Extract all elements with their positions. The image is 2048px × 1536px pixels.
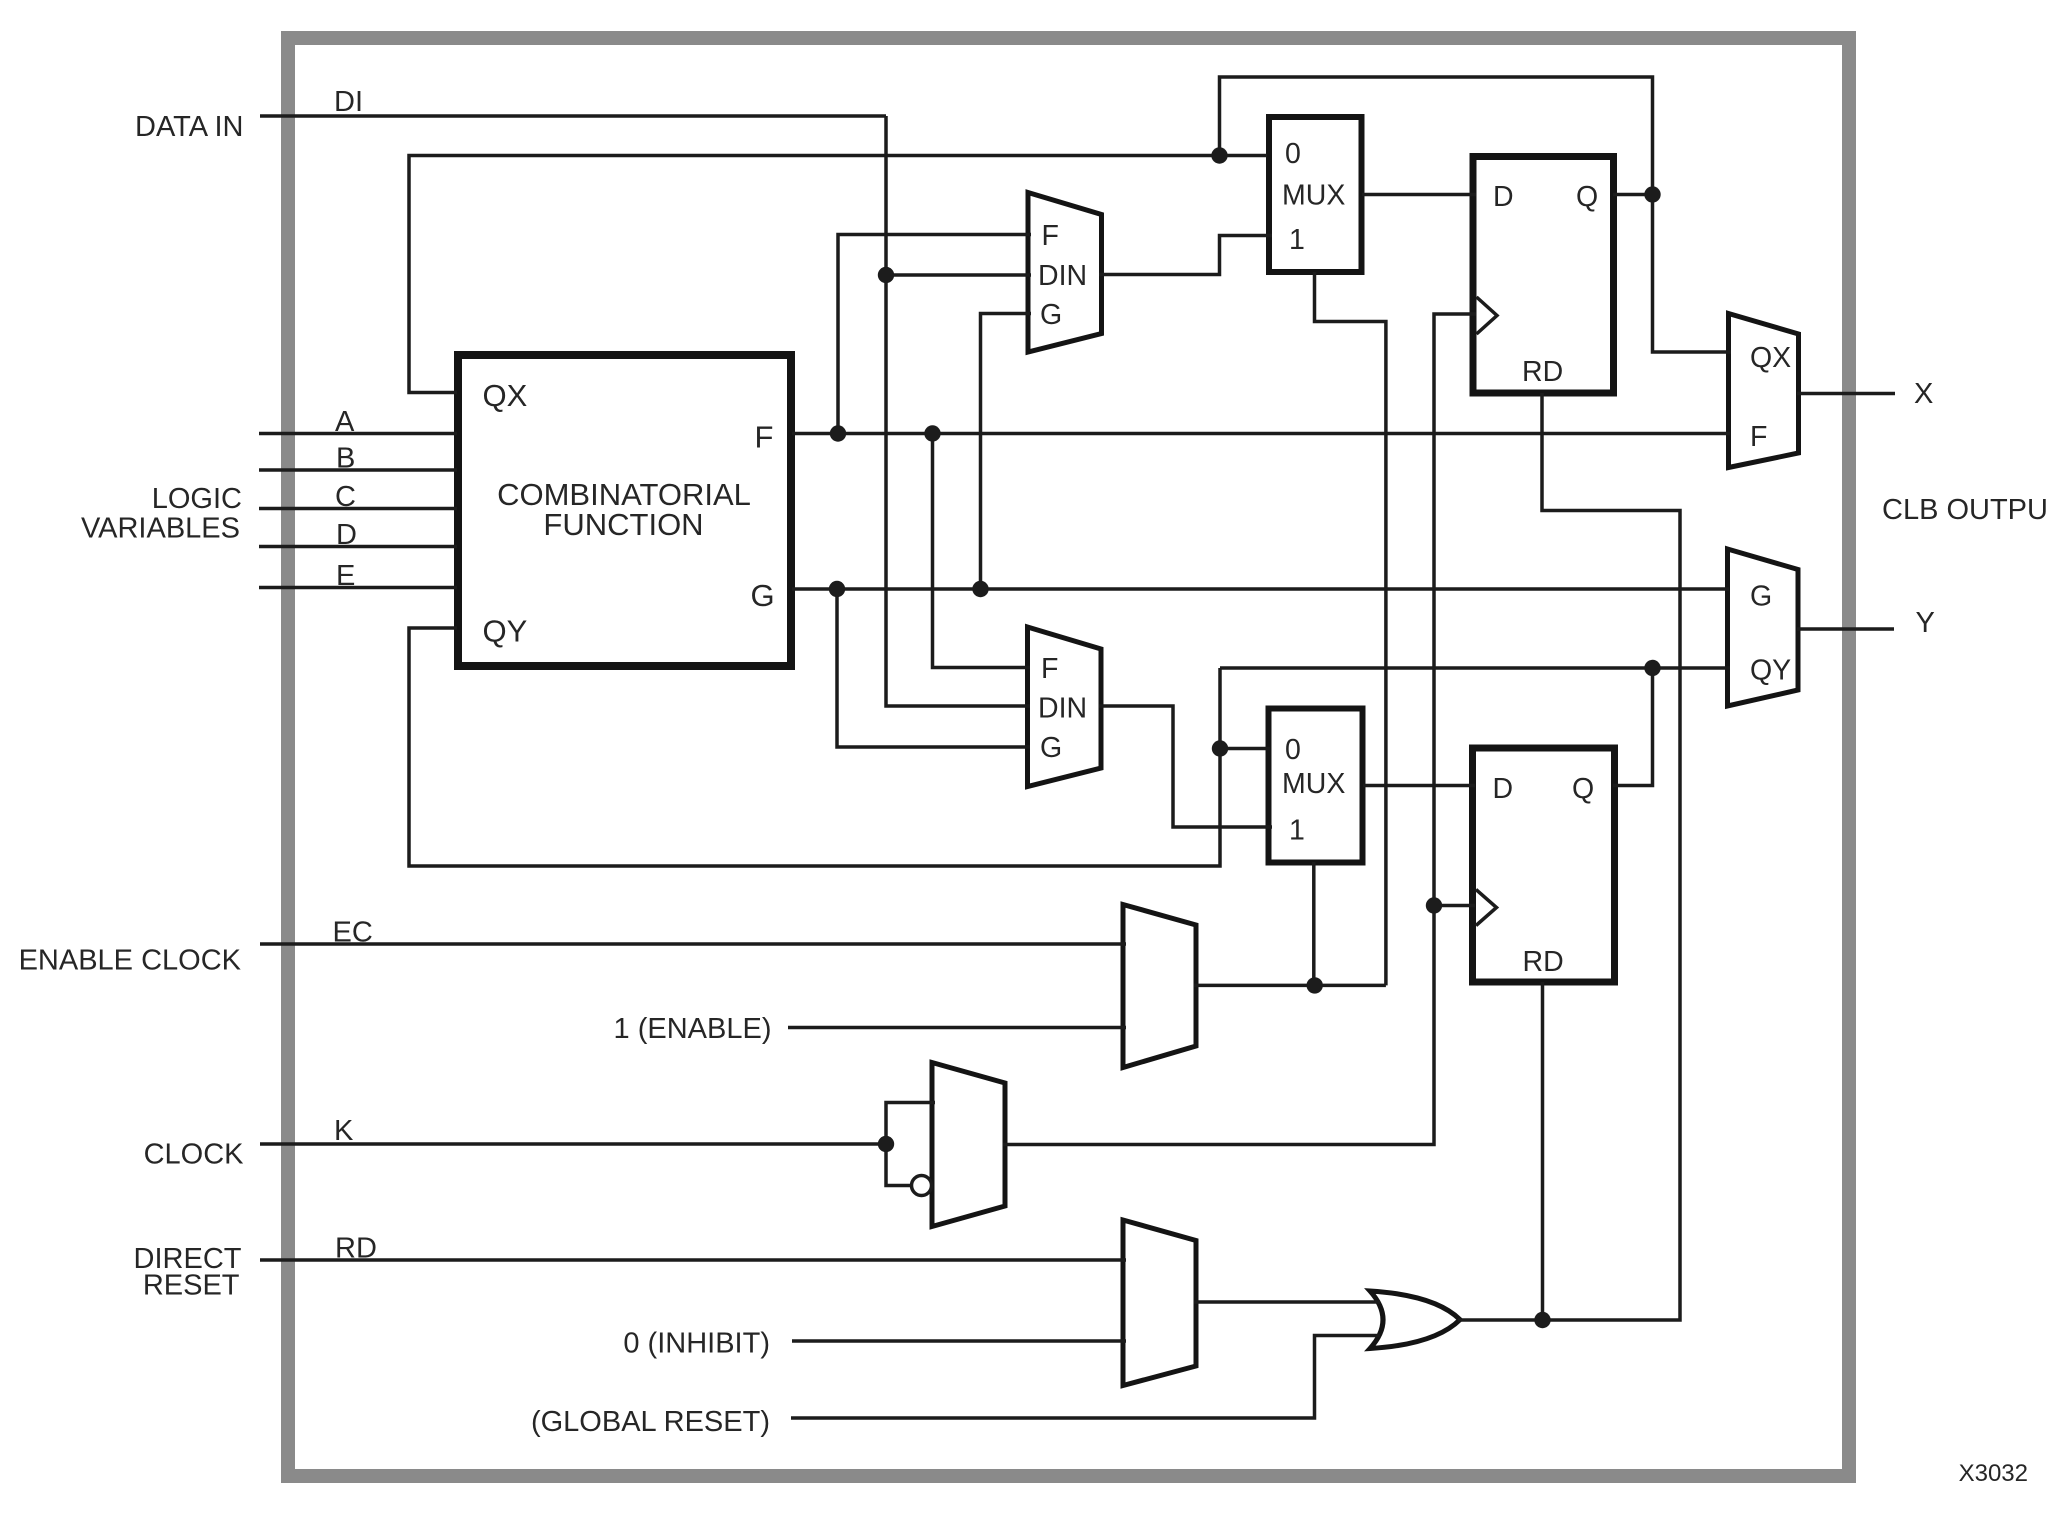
wire EC input [260, 942, 1126, 946]
svg-text:MUX: MUX [1282, 768, 1345, 800]
node F-T2 tap [924, 425, 940, 441]
node M2 zero junction [1212, 740, 1228, 756]
svg-text:RD: RD [335, 1233, 377, 1265]
wire F to T2 [933, 434, 1031, 668]
wire clock to U2 [1434, 904, 1475, 908]
wire QX feedback [409, 156, 1267, 393]
wire U2 RD pin [1541, 982, 1545, 1320]
svg-text:X3032: X3032 [1959, 1460, 2028, 1487]
svg-text:QY: QY [483, 614, 528, 649]
svg-text:Q: Q [1576, 181, 1598, 213]
svg-text:RESET: RESET [143, 1270, 240, 1302]
wire Q2 output [1613, 668, 1653, 786]
svg-text:CLB OUTPUTS: CLB OUTPUTS [1882, 494, 2048, 526]
svg-text:A: A [335, 406, 355, 438]
svg-text:DATA IN: DATA IN [135, 111, 244, 143]
wire enable constant lead [788, 1026, 1126, 1030]
mux T1 (F DIN G top trapezoid) [1028, 193, 1102, 353]
wire B input [259, 468, 457, 472]
wire DIN tap to T1 [886, 273, 1031, 277]
svg-text:1 (ENABLE): 1 (ENABLE) [614, 1013, 772, 1045]
combinatorial function box [458, 355, 791, 666]
svg-text:RD: RD [1523, 946, 1564, 978]
mux T7 (reset select) [1123, 1220, 1196, 1386]
svg-text:F: F [1750, 421, 1767, 453]
svg-text:(GLOBAL RESET): (GLOBAL RESET) [531, 1406, 770, 1438]
wire T1 output to M1 [1099, 236, 1272, 275]
wire K inverted branch [886, 1144, 911, 1186]
wire T2 output to M2 [1099, 706, 1272, 827]
flip-flop U1 (top D-FF) [1473, 157, 1614, 394]
svg-text:G: G [1040, 732, 1062, 764]
wire T7 output [1194, 1300, 1380, 1304]
svg-text:G: G [751, 578, 775, 613]
svg-text:QY: QY [1750, 655, 1791, 687]
wire D input [259, 545, 457, 549]
svg-text:QX: QX [483, 378, 528, 413]
wire X output [1797, 392, 1895, 396]
mux T3 (QX/F output select) [1729, 314, 1799, 468]
node reset junction [1534, 1312, 1550, 1328]
wire Q1 output [1613, 193, 1653, 197]
wire Y output [1797, 627, 1894, 631]
wire M2 to D2 [1363, 784, 1475, 788]
svg-text:D: D [336, 519, 357, 551]
mux T5 (enable clock select) [1123, 905, 1196, 1068]
wire K input [260, 1142, 886, 1146]
node QY junction [1644, 660, 1660, 676]
svg-text:0: 0 [1285, 138, 1301, 170]
wire Q1 feedback net [1220, 77, 1732, 352]
node EC select junction [1307, 977, 1323, 993]
wire M1 to D1 [1362, 193, 1476, 197]
svg-text:EC: EC [333, 917, 373, 949]
wire C input [259, 507, 457, 511]
svg-text:0: 0 [1285, 734, 1301, 766]
wire RD input [260, 1258, 1126, 1262]
svg-text:G: G [1040, 299, 1062, 331]
svg-text:D: D [1493, 181, 1514, 213]
svg-text:X: X [1914, 378, 1933, 410]
svg-text:K: K [334, 1115, 354, 1147]
mux T4 (G/QY output select) [1728, 549, 1799, 706]
svg-text:DI: DI [334, 86, 363, 118]
wire K true branch [886, 1103, 935, 1145]
svg-text:ENABLE CLOCK: ENABLE CLOCK [19, 945, 242, 977]
svg-text:Y: Y [1916, 607, 1935, 639]
node DI-DIN tap [878, 267, 894, 283]
svg-text:FUNCTION: FUNCTION [543, 507, 703, 542]
svg-text:DIN: DIN [1038, 260, 1087, 292]
svg-text:G: G [1750, 581, 1772, 613]
wire QY line to T4 [1220, 666, 1730, 670]
node QX feedback junction [1211, 147, 1227, 163]
node clock U2 junction [1426, 897, 1442, 913]
svg-text:RD: RD [1522, 356, 1563, 388]
wire F to T1 [838, 235, 1031, 434]
node K junction [878, 1136, 894, 1152]
svg-text:D: D [1493, 773, 1514, 805]
node Q1 junction [1644, 186, 1660, 202]
mux M2 box (0/MUX/1 bottom) [1269, 709, 1363, 863]
wire F line [792, 432, 1730, 436]
wire G to T2 [837, 589, 1030, 747]
svg-text:0 (INHIBIT): 0 (INHIBIT) [623, 1328, 770, 1360]
svg-text:MUX: MUX [1282, 180, 1345, 212]
svg-text:E: E [336, 560, 355, 592]
mux T2 (F DIN G bottom trapezoid) [1028, 627, 1102, 787]
svg-text:1: 1 [1289, 224, 1305, 256]
flip-flop U2 (bottom D-FF) [1473, 748, 1615, 982]
wire M1 select [1315, 272, 1386, 985]
node F-T1 tap [830, 425, 846, 441]
svg-text:Q: Q [1572, 773, 1594, 805]
node G-T2 tap [829, 581, 845, 597]
wire global reset lead [791, 1336, 1380, 1419]
wire QY feedback [409, 628, 1220, 866]
node G-T1 tap [972, 581, 988, 597]
clock triangle U2 [1476, 890, 1497, 926]
wire clock distribution [1003, 314, 1476, 1145]
svg-text:CLOCK: CLOCK [144, 1139, 245, 1171]
svg-text:DIN: DIN [1038, 693, 1087, 725]
svg-text:F: F [1042, 220, 1059, 252]
svg-text:B: B [336, 443, 355, 475]
wire E input [259, 586, 457, 590]
inverter bubble on T6 [912, 1176, 932, 1196]
svg-text:LOGIC: LOGIC [152, 483, 242, 515]
svg-text:QX: QX [1750, 342, 1791, 374]
svg-text:F: F [1041, 653, 1058, 685]
clock triangle U1 [1477, 297, 1498, 334]
wire A input [259, 432, 457, 436]
wire M2 select [1312, 862, 1316, 985]
wire T5 output [1194, 984, 1386, 988]
wire G line [792, 587, 1729, 591]
wire OR output to RD pins [1458, 393, 1680, 1320]
svg-text:F: F [755, 420, 774, 455]
wire M2 zero input [1220, 747, 1270, 751]
wire G to T1 [981, 314, 1032, 590]
mux M1 box (0/MUX/1 top) [1269, 117, 1362, 272]
svg-text:VARIABLES: VARIABLES [81, 513, 240, 545]
svg-text:1: 1 [1289, 815, 1305, 847]
wire DI vertical to DIN inputs [886, 116, 1030, 706]
wire DI horizontal [260, 114, 886, 118]
svg-text:C: C [335, 481, 356, 513]
outer gray frame [288, 38, 1849, 1476]
mux T6 (clock polarity select) [932, 1063, 1005, 1227]
wire inhibit constant lead [792, 1339, 1126, 1343]
OR gate G1 [1370, 1291, 1460, 1349]
